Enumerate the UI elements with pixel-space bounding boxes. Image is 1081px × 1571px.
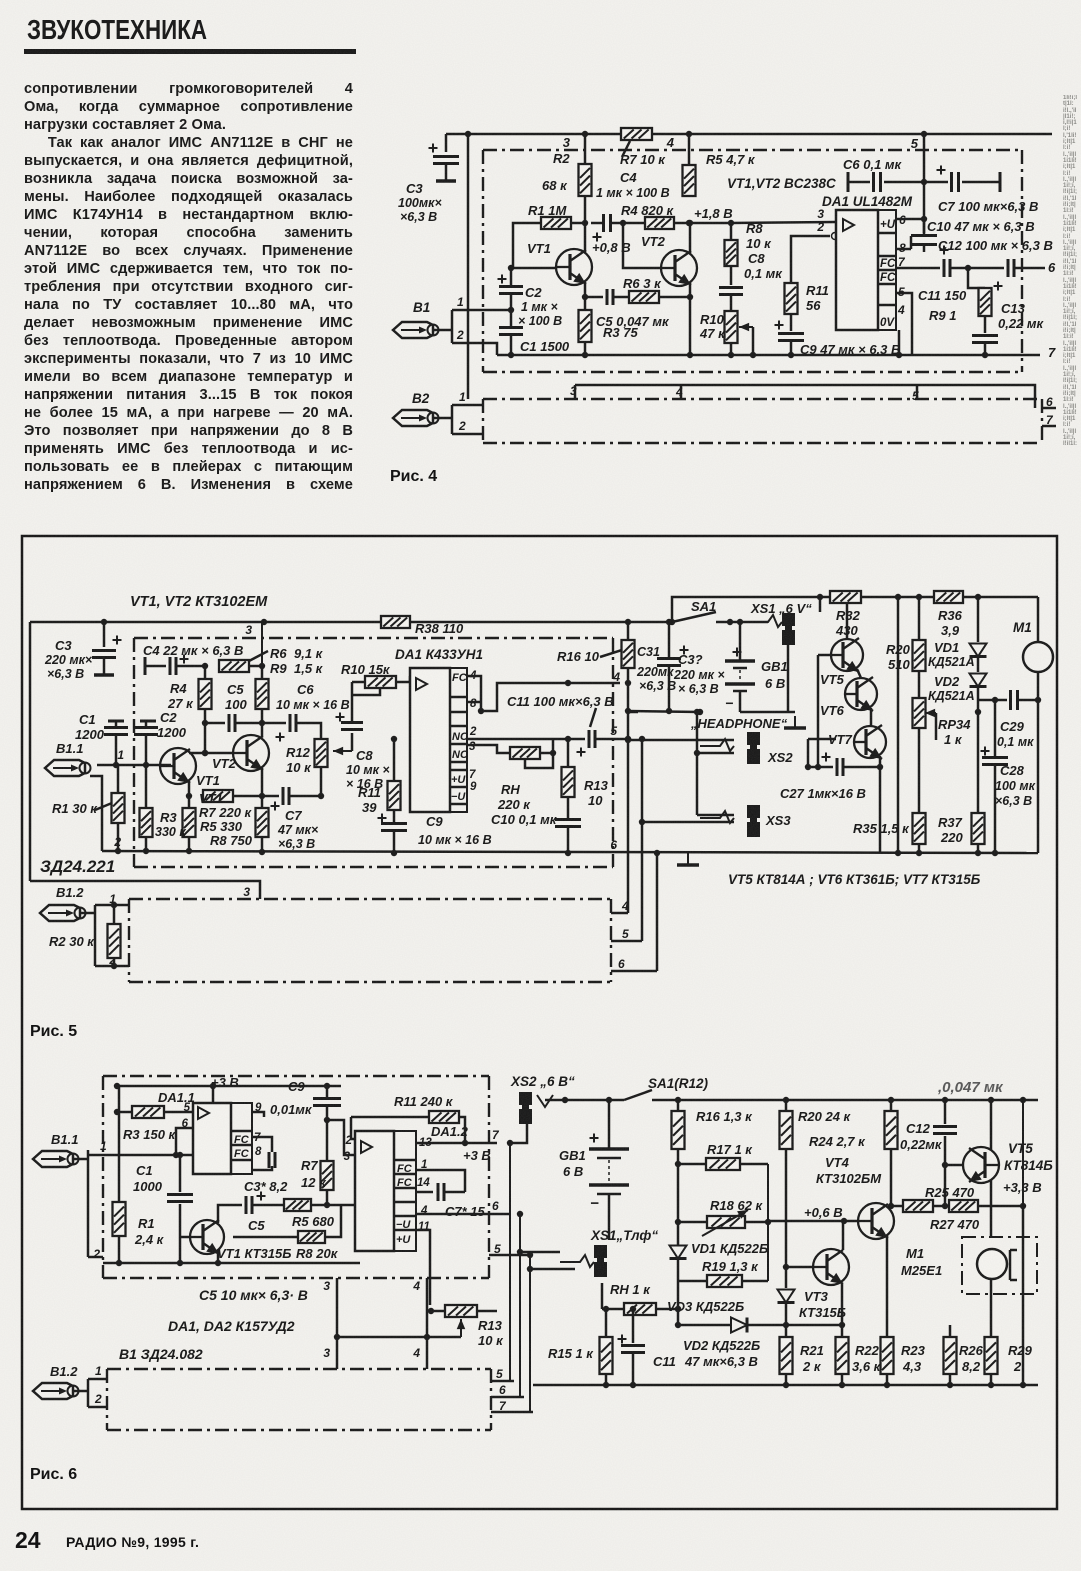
jack XS3: [700, 811, 734, 823]
capacitor C11: [944, 259, 950, 277]
wire C9 to pin3: [327, 1120, 355, 1155]
caption Рис. 4: [390, 468, 437, 486]
wire SA1 to rail fig6: [652, 1099, 1038, 1102]
wire channel2 pin5 feed: [575, 385, 1035, 408]
wire left vertical fig6: [118, 1086, 121, 1202]
resistor R5 fig6: [284, 1199, 311, 1211]
capacitor C1 fig5: [108, 720, 124, 723]
resistor R8 fig5: [256, 808, 269, 837]
connector B1.2 fig6: [33, 1383, 79, 1399]
module dash-dot box fig6: [103, 1075, 489, 1077]
wire top rail fig5: [30, 621, 672, 624]
resistor R27 fig6: [949, 1200, 978, 1212]
module dash-dot box fig5: [134, 637, 613, 639]
op-amp DA1.2: [355, 1131, 394, 1251]
transistor VT5 fig6: [963, 1147, 1000, 1183]
scan noise column right edge: [1063, 95, 1077, 445]
wire VT4 emitter: [886, 1235, 889, 1337]
capacitor C10 C12: [923, 219, 926, 233]
capacitor C3: [445, 134, 448, 152]
potentiometer R13 fig6: [445, 1305, 477, 1317]
resistor R37: [972, 813, 985, 844]
wire B1.2 contacts: [80, 912, 95, 915]
wire R11 39 branch: [393, 739, 396, 781]
wire channel2 outputs: [1042, 407, 1056, 410]
capacitor C5 fig6: [246, 1196, 252, 1214]
wire DA1 pin7 FC output: [896, 267, 940, 270]
resistor R4: [645, 217, 674, 229]
wire DA1.1 pin9 output: [252, 1112, 264, 1117]
wire DA1.2 pin2 input: [351, 1117, 355, 1139]
resistor R15 fig6: [605, 1309, 608, 1337]
diode VD1: [977, 597, 980, 642]
wire pin2 bottom fig6: [103, 1262, 360, 1265]
jack XS2: [700, 739, 734, 751]
wire pin1 inside: [483, 309, 511, 312]
wire pin2 inside: [483, 343, 497, 355]
connector B1.2 fig5: [40, 905, 86, 921]
capacitor C13: [984, 316, 987, 333]
resistor R26 fig6: [949, 1325, 952, 1337]
wire SA1 to XS1: [716, 621, 768, 624]
wire vertical x642: [641, 739, 644, 941]
wire DA1.2 output pin13: [416, 1142, 497, 1145]
capacitor C2 fig5: [140, 720, 156, 723]
wire VT1 collector: [584, 223, 587, 253]
wire feed to module pin4: [481, 683, 620, 711]
wire R9 to VT2 collector: [261, 709, 264, 736]
resistor R11 fig6: [351, 1116, 429, 1119]
wire VT1 base: [180, 1236, 190, 1239]
wire module output row: [628, 711, 700, 712]
transistor VT5: [830, 638, 863, 672]
wire VT6 to VT7: [870, 708, 873, 726]
capacitor C31: [668, 622, 671, 657]
resistor R17 fig6: [678, 1163, 706, 1166]
wire DA1 pin6 +U: [896, 218, 924, 221]
wire VT3 collector emitter: [842, 1221, 845, 1250]
IC module dash-dot box channel 1: [483, 149, 1022, 151]
wire input B1.1: [97, 764, 171, 767]
transistor VT7: [853, 725, 886, 759]
wire top rail fig6: [117, 1085, 341, 1088]
wire module pin5 fig6: [489, 1254, 530, 1257]
capacitor C7 fig5: [271, 802, 280, 811]
connector B1: [393, 322, 439, 338]
capacitor C9 fig5: [393, 810, 396, 822]
wire XS1 sleeve down: [601, 1283, 604, 1309]
capacitor C2: [498, 275, 507, 284]
wire VT1 emitter to R3: [584, 282, 587, 310]
switch SA1: [672, 612, 716, 622]
capacitor C5: [585, 296, 603, 299]
wire vertical x697: [696, 712, 699, 815]
capacitor C27: [822, 753, 831, 762]
capacitor C8: [730, 266, 733, 285]
wire B1 contacts: [433, 329, 452, 332]
wire M1 down: [990, 1279, 993, 1337]
transistor VT4: [857, 1203, 894, 1239]
wire DA1.1 pin7 pin8 caps: [252, 1137, 272, 1152]
connector B2: [393, 410, 439, 426]
node pin 3: [584, 134, 587, 164]
resistor R8 fig6: [233, 1236, 298, 1239]
capacitor C11 fig5: [568, 738, 585, 741]
wire VT1 emitter: [188, 781, 191, 796]
resistor R25 fig6: [903, 1200, 933, 1212]
wire vertical pin6 link: [519, 1214, 521, 1397]
wire R4 to R5 node: [674, 222, 731, 225]
op-amp DA1.1: [193, 1103, 231, 1174]
wire DA1.2 plusU: [416, 1230, 430, 1305]
resistor R24 fig6: [890, 1100, 893, 1111]
node pin 5: [923, 134, 926, 237]
wire DA1 pin2 output: [467, 738, 568, 741]
wire VT5 base loop: [818, 654, 830, 657]
node pin 4: [688, 134, 691, 165]
potentiometer R14: [510, 747, 540, 759]
wire bottom rail fig6: [533, 1384, 1038, 1387]
wire VT5: [846, 597, 849, 639]
wire x1023 vertical: [1022, 1100, 1024, 1206]
wire DA1.2 minusU: [416, 1213, 510, 1216]
node pin 3 fig5: [261, 622, 263, 667]
wire VT7 collector to rail: [879, 767, 882, 853]
wire VD2 down: [977, 687, 980, 813]
transistor VT6: [844, 677, 877, 711]
capacitor C29: [978, 699, 1007, 702]
resistor R4 fig5: [199, 679, 212, 709]
wire module pin3 stub: [336, 1278, 339, 1369]
resistor R16: [627, 622, 630, 640]
wire B1.2 contacts fig6: [73, 1390, 88, 1393]
wire VT1 collector to VT2 base: [189, 752, 234, 755]
wires XS3 contacts: [697, 814, 734, 817]
capacitor C6: [847, 172, 850, 192]
wire DA1 pin3: [467, 745, 510, 753]
wire DA1 pin4 OV stub: [898, 330, 901, 355]
wire top rail right section: [672, 597, 1038, 622]
resistor R21 fig6: [780, 1337, 793, 1374]
resistor R6: [629, 291, 659, 303]
wire vertical x657: [656, 853, 659, 971]
wires channel2 pins right: [611, 912, 628, 915]
caption Рис. 6: [30, 1466, 77, 1484]
resistor R32: [830, 591, 861, 603]
capacitor C11 fig6: [632, 1309, 635, 1343]
op-amp DA1 fig5: [410, 668, 450, 812]
transistor VT1 fig5: [159, 748, 196, 784]
capacitor C8 fig5: [336, 713, 345, 722]
diode VD1 fig6: [677, 1164, 680, 1245]
left article text column: [24, 80, 353, 494]
resistor R1 fig6: [113, 1202, 126, 1236]
wire left edge fig5: [29, 622, 32, 881]
potentiometer R12: [315, 739, 328, 767]
capacitor C28: [994, 700, 997, 756]
resistor R20: [918, 597, 921, 640]
capacitor C32 output: [628, 711, 638, 714]
resistor R20 fig6: [785, 1100, 788, 1111]
wire bottom rail: [497, 354, 1040, 357]
wire DA1.1 pin6 feedback: [176, 1128, 193, 1155]
outer frame: [22, 536, 1057, 1509]
resistor R7: [621, 128, 652, 140]
wire C4 to VT2 base: [623, 223, 662, 268]
resistor R22 fig6: [836, 1337, 849, 1374]
battery GB1 fig6: [608, 1100, 611, 1148]
resistor R8: [730, 223, 733, 240]
wires XS2 contacts: [628, 739, 734, 742]
wire B1.1 sleeve down: [90, 776, 102, 851]
resistor R6 fig5: [219, 660, 249, 672]
capacitor C1 fig6: [179, 1155, 182, 1192]
capacitor C1: [499, 328, 523, 335]
wire RP34 down: [918, 728, 921, 813]
capacitor C5 symbol: [205, 722, 225, 725]
wire right vertical R17-R19: [767, 1164, 769, 1281]
wire top rail: [446, 133, 1052, 136]
wires box fig6 right pins: [491, 1380, 514, 1383]
wire DA1 pin2: [791, 236, 830, 283]
wire VT5 base: [945, 1164, 963, 1167]
wire DA1 pin5 stub: [896, 293, 912, 355]
diode VD3 fig6: [677, 1259, 680, 1288]
connector B1.1 fig6: [33, 1151, 79, 1167]
capacitor C4: [604, 214, 611, 232]
capacitor C9 fig6: [326, 1086, 329, 1097]
IC module dash-dot box channel 2: [483, 398, 1042, 400]
potentiometer RP34: [918, 671, 921, 698]
wire ground return to channel2: [30, 881, 260, 899]
resistor R7 fig6: [326, 1160, 329, 1161]
resistor R7 fig5: [203, 790, 233, 802]
wire DA1 pin8: [467, 701, 481, 704]
wire VT2 emitter down: [689, 282, 692, 355]
label +0,8В: [593, 233, 602, 242]
footer: [15, 1527, 41, 1554]
wire VT4 base: [768, 1220, 858, 1223]
resistor R19 fig6: [678, 1280, 707, 1283]
capacitor C6 symbol: [262, 722, 286, 725]
wire vertical pin5 link: [529, 1255, 531, 1412]
diode VD2 fig6: [677, 1288, 680, 1325]
resistor R2: [579, 164, 592, 196]
resistor R2 fig5: [111, 902, 117, 908]
resistor R11: [785, 283, 798, 314]
resistor R1 fig5: [117, 765, 120, 793]
wire vertical pin7 link: [509, 1143, 511, 1381]
wire R2 to node: [584, 196, 587, 223]
wire left vertical feeder: [467, 134, 470, 399]
wire VT1 emitter: [217, 1251, 220, 1263]
resistor R9 fig5: [256, 679, 269, 709]
wire B2 contacts: [433, 417, 452, 420]
potentiometer R10: [725, 311, 738, 343]
switch SA1 fig6: [624, 1090, 652, 1100]
resistor R13 fig5: [567, 739, 570, 767]
ground below battery: [740, 711, 795, 714]
resistor R3 fig5: [140, 808, 153, 837]
resistor R36: [934, 591, 963, 603]
battery GB1: [733, 648, 742, 657]
capacitor C4 fig5: [144, 657, 147, 675]
wire XS1 sleeve to ground: [787, 645, 790, 712]
wire DA1 pin4 FC: [467, 676, 481, 711]
wire VT1 collector to C5: [218, 1205, 242, 1223]
wire XS2 tip link: [510, 1122, 527, 1143]
caption Рис. 5: [30, 1023, 77, 1041]
wire B1.1 contacts fig6: [73, 1158, 88, 1161]
input module box fig6: [107, 1368, 491, 1370]
header ЗВУКОТЕХНИКА: [27, 14, 207, 46]
resistor R3: [579, 310, 592, 342]
connector B1.1: [45, 760, 91, 776]
resistor R35: [913, 813, 926, 844]
wire VT5 collector emitter: [990, 1100, 993, 1150]
diode VD2: [977, 657, 980, 672]
capacitor C3 fig5: [103, 622, 106, 647]
module dash-dot box channel2 fig5: [129, 898, 611, 900]
transistor VT2 fig5: [232, 735, 269, 771]
wire bridging pins 3 4: [337, 1336, 461, 1339]
resistor R18 fig6: [678, 1221, 707, 1224]
capacitor C13 output: [994, 282, 1003, 291]
resistor R29 fig6: [985, 1337, 998, 1374]
wire XS2 to SA1: [545, 1099, 624, 1102]
wire R20 to VT4 base: [785, 1149, 788, 1221]
resistor R38: [381, 616, 410, 628]
resistor R1: [541, 217, 571, 229]
potentiometer R10 fig5: [365, 676, 396, 688]
resistor R9: [968, 268, 985, 288]
op-amp DA1 UL1482M: [836, 210, 878, 330]
capacitor C9: [790, 314, 793, 331]
capacitor C12 fig6: [944, 1100, 947, 1124]
wire VT2 collector: [689, 223, 692, 254]
resistor R5 fig5: [183, 808, 196, 837]
ground bottom rail: [677, 853, 699, 865]
resistor R3 fig6: [117, 1111, 132, 1114]
wire VT2 emitter down: [261, 768, 264, 808]
wire R4 node to DA1 pin3: [731, 222, 836, 223]
capacitor C7 fig6: [416, 1170, 465, 1192]
resistor R5: [683, 165, 696, 196]
transistor VT2: [660, 250, 697, 286]
wire VD3 connection: [785, 1267, 788, 1288]
resistor R23 fig6: [881, 1337, 894, 1374]
capacitor C7: [937, 166, 946, 175]
capacitor C10 fig5: [567, 797, 570, 818]
wire module pin4 stub: [426, 1278, 429, 1369]
wire R4 bottom node: [204, 709, 207, 753]
wire R1 left to VT1 base: [513, 223, 557, 268]
wire bottom rail fig5: [102, 851, 1038, 853]
transistor VT1 fig6: [189, 1220, 224, 1254]
wire input fig6: [88, 1154, 193, 1157]
wire VT7 emitter: [879, 756, 882, 767]
wire vertical x898: [897, 597, 900, 853]
resistor R16 fig6: [677, 1100, 680, 1111]
transistor VT3: [812, 1249, 849, 1285]
wire VD2 to R22: [786, 1324, 842, 1327]
resistor R11 fig5: [388, 781, 401, 810]
wires XS1 contacts: [520, 1251, 560, 1254]
transistor VT1: [555, 249, 592, 285]
wire VT3 base: [786, 1266, 813, 1269]
